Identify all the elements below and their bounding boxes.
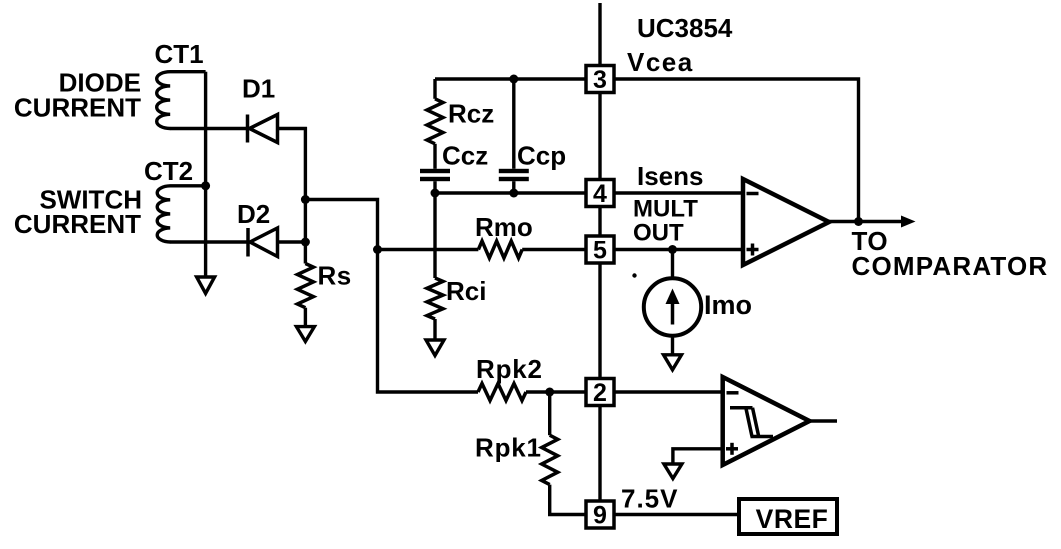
wire main bus top [598, 3, 601, 65]
svg-text:3: 3 [593, 66, 607, 94]
node Rci junction [431, 189, 440, 198]
wire pin2 to comparator [614, 390, 723, 393]
ground below comparator plus [664, 464, 682, 479]
svg-text:CT1: CT1 [155, 39, 204, 69]
svg-text:Ccp: Ccp [517, 141, 566, 171]
wire bus 3-4 [598, 93, 601, 180]
pin 2 box [586, 379, 614, 408]
wire op-amp output [829, 220, 901, 223]
wire Isens line [435, 191, 586, 194]
wire pin5 to op-amp [614, 248, 743, 251]
svg-text:Ccz: Ccz [442, 141, 488, 171]
capacitor Ccp [499, 79, 566, 193]
svg-text:Rcz: Rcz [448, 99, 494, 129]
svg-text:Rmo: Rmo [475, 212, 533, 242]
node Imo junction [668, 245, 677, 254]
wire pin4 to op-amp [614, 191, 743, 194]
op-amp U1 [743, 179, 829, 265]
svg-text:CURRENT: CURRENT [14, 209, 141, 239]
svg-text:Isens: Isens [637, 161, 704, 191]
svg-text:OUT: OUT [633, 220, 684, 247]
resistor Rmo [475, 212, 533, 258]
current source Imo [644, 250, 752, 355]
wire bus 4-5 [598, 206, 601, 237]
pin 9 box [586, 501, 614, 530]
transformer CT2 [144, 156, 206, 242]
svg-text:Rpk1: Rpk1 [475, 433, 542, 463]
svg-text:Rci: Rci [446, 276, 486, 306]
svg-text:5: 5 [593, 237, 607, 265]
svg-text:UC3854: UC3854 [637, 13, 733, 43]
label TO COMPARATOR [852, 226, 1049, 281]
wire MULT OUT line left [378, 248, 479, 251]
wire CT2 to D2 [170, 240, 248, 243]
pin 3 box [586, 66, 614, 95]
resistor Rpk2 [476, 354, 543, 401]
svg-text:VREF: VREF [756, 504, 829, 534]
svg-text:COMPARATOR: COMPARATOR [852, 251, 1049, 281]
svg-text:9: 9 [593, 502, 607, 530]
node CT2 top junction [201, 181, 210, 190]
wire bus 5-2 [598, 263, 601, 379]
resistor Rci [427, 193, 486, 340]
wire CT1 to D1 [170, 127, 248, 130]
wire comparator output [810, 419, 838, 422]
transformer CT1 [155, 39, 206, 129]
ground below Imo [664, 355, 682, 370]
svg-text:Imo: Imo [704, 290, 752, 320]
wire comparator plus to ground [673, 449, 723, 464]
diode D2 [237, 199, 278, 257]
resistor Rpk1 [475, 392, 586, 515]
block VREF [739, 499, 837, 534]
comparator U2 [723, 377, 810, 465]
node output junction [854, 217, 863, 226]
node MULT OUT branch junction [373, 245, 382, 254]
pin 4 box [586, 180, 614, 209]
diode D1 [242, 74, 278, 143]
label MULT OUT [633, 196, 698, 247]
wire pin3 compensation line [435, 77, 586, 80]
svg-text:2: 2 [593, 379, 607, 407]
arrow to comparator [901, 216, 916, 228]
wire pin9 to VREF [614, 513, 739, 516]
svg-text:7.5V: 7.5V [621, 484, 679, 514]
node Ccp top junction [509, 75, 518, 84]
svg-text:4: 4 [593, 180, 607, 208]
svg-text:Rpk2: Rpk2 [476, 354, 543, 384]
resistor Rcz [427, 79, 494, 169]
ground below Rci [426, 340, 444, 356]
wire CT primary vertical [204, 72, 207, 277]
svg-text:D2: D2 [237, 199, 270, 229]
wire D2 to node [278, 240, 306, 243]
pin 5 box [586, 236, 614, 265]
node Rpk junction [545, 388, 554, 397]
label DIODE CURRENT [14, 68, 141, 123]
scan speck artifact [632, 273, 636, 277]
wire bus 2-9 [598, 405, 601, 502]
resistor Rs [297, 261, 351, 327]
node D2 junction [301, 238, 310, 247]
wire node to Rpk2 branch [305, 200, 478, 393]
wire diode summing vertical [304, 127, 307, 264]
svg-text:D1: D1 [242, 74, 275, 104]
wire D1 to node [278, 127, 307, 130]
node branch junction [301, 195, 310, 204]
svg-text:CURRENT: CURRENT [14, 93, 141, 123]
capacitor Ccz [420, 141, 488, 194]
label SWITCH CURRENT [14, 185, 142, 240]
svg-text:MULT: MULT [633, 196, 698, 223]
wire Rpk2 to pin2 [526, 390, 586, 393]
wire Vcea feedback [614, 79, 859, 222]
svg-text:Rs: Rs [318, 261, 352, 291]
ground below CT2 [197, 277, 215, 294]
wire Rmo to pin5 [522, 248, 586, 251]
node Ccp bottom junction [509, 189, 518, 198]
svg-text:Vcea: Vcea [627, 47, 694, 77]
ground below Rs [296, 327, 314, 342]
svg-text:CT2: CT2 [144, 156, 193, 186]
